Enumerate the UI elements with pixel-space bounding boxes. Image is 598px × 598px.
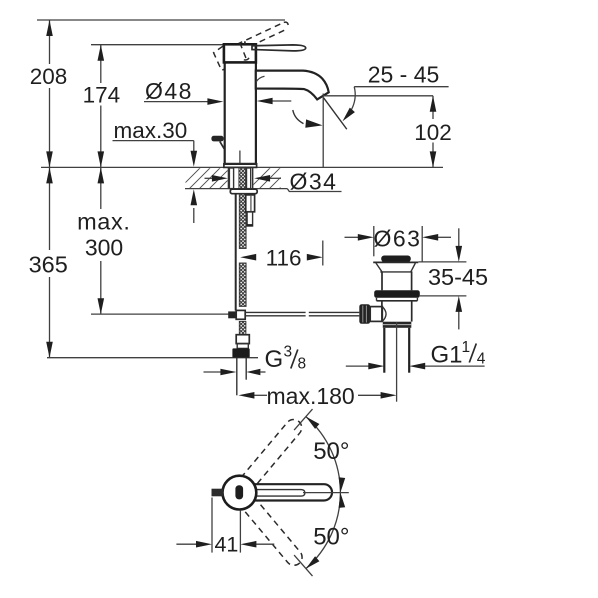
second hose connector [246, 195, 255, 212]
50deg arc upper [306, 417, 341, 493]
dashed lever rotated down 50 [241, 497, 305, 569]
lever front edge [244, 41, 246, 44]
dashed cap outline tilted [214, 46, 231, 70]
keyhole slot [235, 485, 243, 499]
pop-up rod knob [211, 136, 223, 142]
svg-text:4: 4 [477, 351, 486, 368]
rod clamp block [228, 311, 236, 318]
svg-text:G: G [265, 346, 284, 373]
svg-text:300: 300 [85, 234, 123, 260]
aerator angle diagonal [324, 98, 347, 129]
dimension 365 vertical line [49, 167, 51, 250]
svg-text:G1: G1 [431, 342, 463, 369]
dimension max.180 [254, 394, 268, 396]
O34 left arrow [205, 177, 213, 179]
mounting washer [230, 189, 257, 194]
102 top ref line [323, 95, 433, 97]
O34 label underline [287, 189, 341, 192]
svg-text:max.: max. [77, 208, 130, 234]
tailpipe [383, 328, 385, 373]
drain seal flange [374, 290, 420, 298]
svg-text:174: 174 [83, 83, 121, 108]
svg-text:50°: 50° [313, 438, 349, 465]
lever axis extension upper [294, 409, 312, 430]
spout inner arc [256, 76, 264, 82]
dimension 174 vertical line [100, 45, 102, 83]
max.30 upper arrow [193, 141, 195, 152]
svg-text:208: 208 [30, 64, 68, 89]
dashes inside cap [240, 43, 250, 60]
svg-text:Ø63: Ø63 [374, 226, 422, 252]
top-view lever handle [252, 484, 332, 500]
flexible hose braid upper [239, 194, 246, 249]
ref line: cap top datum [91, 44, 224, 46]
svg-text:max.30: max.30 [114, 118, 188, 143]
svg-text:25 - 45: 25 - 45 [368, 62, 440, 88]
dashed lever rotated up 50 [241, 416, 305, 488]
svg-text:8: 8 [298, 356, 307, 373]
rod stub top view [212, 489, 224, 497]
drain top plate [373, 261, 418, 263]
drain plug dome [381, 256, 411, 263]
svg-text:Ø48: Ø48 [145, 78, 193, 104]
faucet cap [224, 44, 256, 62]
O34 right arrow [270, 177, 282, 179]
O48 leader underline + left arrow [144, 101, 209, 103]
top-view body circle [223, 476, 257, 510]
lever handle [252, 45, 306, 51]
pull rod vertical [235, 194, 237, 311]
handle inner detail [256, 490, 305, 497]
braid below block [239, 321, 246, 335]
knob stub [370, 307, 382, 322]
dimension 41 [176, 543, 196, 545]
41 ext lines [211, 498, 213, 553]
drain rod knob [359, 304, 370, 324]
threaded shank braid [239, 168, 246, 190]
faucet body [225, 62, 256, 163]
dashed lever raised position [237, 22, 288, 51]
svg-text:3: 3 [284, 344, 293, 361]
O63 ext lines [373, 226, 375, 256]
max.30 lower arrow [193, 208, 195, 223]
svg-text:41: 41 [214, 533, 238, 557]
deck bottom line [185, 188, 287, 190]
swivel curved arrow [293, 110, 304, 124]
ref line: top of lever datum [37, 19, 285, 21]
svg-text:max.180: max.180 [267, 383, 355, 409]
G1 1/4 arrows [346, 365, 369, 367]
svg-text:1: 1 [462, 339, 471, 356]
faucet base plate [224, 164, 257, 168]
35-45 ref lines [418, 261, 466, 263]
lever axis extension lower [294, 555, 312, 576]
svg-text:35-45: 35-45 [428, 264, 488, 290]
hose end lines [236, 358, 238, 396]
dimension 208 vertical line [49, 20, 51, 64]
ref line 365 bottom datum [47, 357, 258, 359]
svg-text:Ø34: Ø34 [290, 168, 338, 194]
116 spout ext line short [322, 241, 324, 266]
deck top surface line [41, 166, 443, 168]
G3/8 width arrows [204, 371, 222, 373]
knurled band [383, 322, 412, 328]
deck cross-section hatching left [176, 164, 264, 192]
drain center line [396, 322, 398, 402]
dimension 35-45 [458, 228, 460, 248]
second hose lower piece [247, 212, 253, 226]
spout [256, 71, 329, 100]
spout outlet extension line [322, 94, 324, 168]
mounting studs [229, 168, 233, 189]
max.30 leader underline [113, 140, 194, 142]
dimension 116 [240, 254, 256, 261]
svg-text:365: 365 [29, 251, 68, 277]
25-45 curved leader with arrow [352, 87, 356, 110]
bottom view center line [303, 492, 349, 494]
flexible hose braid lower [239, 263, 246, 306]
25-45 underline [354, 86, 448, 88]
pop-up horizontal rod [245, 311, 305, 313]
drain upper body [381, 272, 383, 290]
svg-text:102: 102 [414, 120, 452, 145]
svg-text:50°: 50° [313, 524, 349, 551]
mounting hole edges [227, 167, 229, 188]
hose end connector [236, 335, 249, 344]
drain upper taper [376, 263, 382, 272]
body center line [239, 151, 241, 165]
50deg arc lower [306, 493, 341, 569]
O48 right arrow [272, 100, 291, 102]
drain lower body [381, 301, 383, 322]
G3/8 nut [232, 348, 249, 357]
ref line max300 bottom (pop-up rod level) [91, 313, 229, 315]
svg-text:116: 116 [266, 245, 302, 270]
deck cross-section hatching right [246, 164, 314, 192]
dimension 102 vertical line [432, 96, 434, 119]
dimension max.300 vertical line [100, 167, 102, 209]
O63 arrows [345, 236, 359, 238]
